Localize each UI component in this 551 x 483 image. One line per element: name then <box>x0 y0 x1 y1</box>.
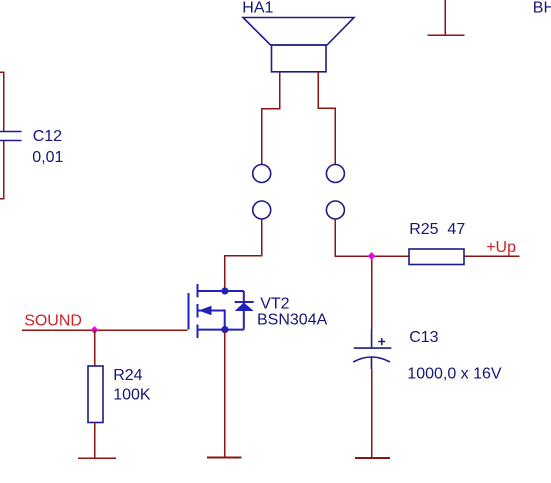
speaker HA1 <box>243 18 354 72</box>
wire connector left to VT2 drain <box>225 219 262 291</box>
svg-text:C12: C12 <box>33 128 62 145</box>
svg-text:VT2: VT2 <box>260 295 289 312</box>
svg-text:+Up: +Up <box>486 239 516 256</box>
wire SOUND input <box>22 329 187 331</box>
svg-text:0,01: 0,01 <box>32 149 63 166</box>
resistor R25 <box>409 249 464 265</box>
resistor R24 <box>88 366 103 423</box>
svg-text:R25 47: R25 47 <box>409 221 465 238</box>
svg-text:HA1: HA1 <box>242 0 273 17</box>
connector pin circle top-right <box>326 165 344 183</box>
wire C13 to ground <box>371 369 373 458</box>
gate bar <box>188 293 190 330</box>
channel segment middle <box>197 304 199 318</box>
svg-text:1000,0 x 16V: 1000,0 x 16V <box>407 366 502 383</box>
ground (top right) <box>427 34 464 36</box>
svg-text:C13: C13 <box>409 329 438 346</box>
drain lead <box>198 290 244 292</box>
svg-text:BH1: BH1 <box>533 0 551 17</box>
connector pin circle bottom-right <box>326 201 344 219</box>
wire SOUND node to R24 <box>94 330 96 367</box>
wire VT2 source to ground <box>224 332 226 458</box>
body diode branch <box>243 291 245 330</box>
capacitor C12 bottom wire at left edge <box>0 141 4 199</box>
connector pin circle top-left <box>253 165 271 183</box>
wire connector right to node <box>335 219 371 256</box>
node junction dot SOUND (magenta) <box>91 326 99 334</box>
svg-text:100K: 100K <box>113 386 151 403</box>
substrate arrow head <box>199 306 212 315</box>
junction dot source <box>221 326 228 333</box>
svg-text:SOUND: SOUND <box>24 313 82 330</box>
capacitor C13 top lead (blue part) <box>371 330 373 348</box>
wire speaker right lead <box>318 72 335 165</box>
wire node to R25 <box>372 255 409 257</box>
body diode triangle <box>235 303 254 312</box>
capacitor C12 top wire at left edge <box>0 72 4 131</box>
body diode cathode bar <box>235 301 254 303</box>
svg-text:R24: R24 <box>113 367 142 384</box>
source lead <box>198 329 244 331</box>
junction dot drain <box>221 287 228 294</box>
wire R24 to ground <box>94 423 96 459</box>
svg-text:BSN304A: BSN304A <box>257 312 328 329</box>
wire node down to C13 <box>371 256 373 331</box>
ground (C13) <box>355 457 390 459</box>
transistor VT2 (MOSFET BSN304A) <box>189 284 254 338</box>
node junction dot (magenta) <box>368 252 376 260</box>
channel segment source <box>197 325 199 339</box>
capacitor C12 top plate <box>0 131 22 133</box>
wire R25 to +Up <box>464 255 520 257</box>
ground (VT2 source) <box>207 457 242 459</box>
capacitor C13 curved bottom plate <box>353 357 390 362</box>
capacitor C12 bottom plate <box>0 140 22 142</box>
substrate lead <box>198 311 225 330</box>
ground (R24) <box>78 457 116 459</box>
wire top-right ground stem <box>444 0 446 35</box>
channel segment drain <box>197 284 199 297</box>
capacitor C13 plus sign <box>378 338 385 345</box>
wire speaker left lead <box>262 72 280 165</box>
capacitor C13 top plate <box>354 347 392 349</box>
connector pin circle bottom-left <box>253 201 271 219</box>
capacitor C13 bottom lead (blue part) <box>371 357 373 369</box>
